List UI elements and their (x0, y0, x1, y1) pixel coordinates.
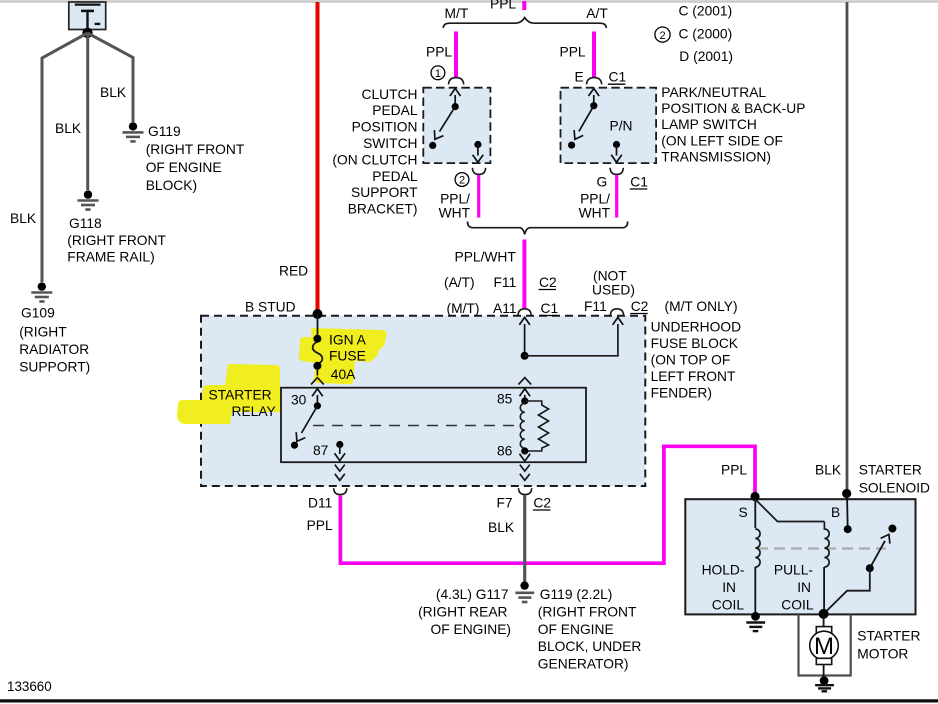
svg-text:G119: G119 (148, 124, 181, 139)
chevron pin 85 (518, 378, 531, 385)
svg-text:OF ENGINE: OF ENGINE (538, 622, 614, 637)
chevrons below 86 (520, 465, 530, 472)
svg-text:C2: C2 (533, 496, 551, 511)
svg-text:(NOT: (NOT (593, 269, 627, 284)
svg-text:A/T: A/T (586, 6, 608, 21)
svg-text:M/T: M/T (445, 6, 469, 21)
clutch switch arm (440, 107, 456, 132)
ground hold-in coil (746, 612, 765, 631)
ground G118 (78, 190, 99, 209)
svg-text:P/N: P/N (610, 119, 633, 134)
motor M circle (810, 631, 839, 660)
svg-text:RADIATOR: RADIATOR (19, 342, 89, 357)
wire fuse to relay (316, 366, 318, 376)
svg-text:PPL: PPL (307, 518, 333, 533)
svg-text:30: 30 (291, 393, 307, 408)
pin 87 arrow down (339, 445, 341, 455)
starter solenoid box (685, 499, 915, 614)
svg-text:(RIGHT FRONT: (RIGHT FRONT (67, 233, 166, 248)
relay pin 87 node (336, 441, 343, 448)
svg-text:C1: C1 (609, 70, 627, 85)
connector arc F11 not used (610, 309, 623, 316)
fuse terminal arrow up A11 (524, 324, 526, 356)
clutch pedal position switch box (423, 88, 490, 163)
motor brush top (816, 627, 831, 633)
starter motor housing (799, 614, 851, 675)
fuse IGN A (313, 335, 321, 343)
svg-text:(ON TOP OF: (ON TOP OF (651, 353, 731, 368)
svg-text:PPL/: PPL/ (580, 192, 610, 207)
pnp switch contact node (568, 142, 575, 149)
wire BLK to G118 (86, 33, 89, 190)
motor junction node (819, 609, 829, 619)
pnp output node (613, 141, 620, 148)
circled 1 (431, 66, 445, 80)
battery ground box (69, 2, 106, 30)
svg-text:(RIGHT FRONT: (RIGHT FRONT (146, 142, 245, 157)
hold-in coil (755, 529, 760, 567)
svg-text:BLK: BLK (10, 211, 37, 226)
svg-text:B: B (831, 505, 840, 520)
wire PPL/WHT right (615, 175, 618, 218)
top frame border (0, 0, 938, 3)
connector arc pnp bottom (610, 168, 623, 175)
svg-text:40A: 40A (331, 367, 356, 382)
clutch switch output node (474, 141, 481, 148)
pull-in coil (824, 522, 829, 568)
clutch switch contact node (429, 142, 436, 149)
wire B inside solenoid (846, 494, 849, 530)
wire PPL/WHT left (477, 175, 480, 218)
svg-text:(M/T ONLY): (M/T ONLY) (665, 299, 738, 314)
wire RED battery feed (316, 2, 320, 313)
svg-text:G118: G118 (69, 216, 102, 231)
svg-text:133660: 133660 (7, 679, 52, 694)
svg-text:(ON LEFT SIDE OF: (ON LEFT SIDE OF (661, 133, 783, 148)
svg-text:PPL: PPL (721, 463, 747, 478)
relay contact node 87 side (291, 442, 298, 449)
wire PPL stub top (522, 1, 526, 10)
svg-text:B STUD: B STUD (245, 300, 296, 315)
svg-text:STARTER: STARTER (859, 463, 922, 478)
node B STUD (313, 309, 323, 319)
svg-text:OF ENGINE: OF ENGINE (146, 160, 222, 175)
svg-text:STARTER: STARTER (857, 629, 920, 644)
svg-text:LAMP SWITCH: LAMP SWITCH (661, 117, 757, 132)
node BLK at solenoid B (842, 489, 851, 498)
svg-text:G109: G109 (21, 306, 55, 321)
svg-text:POSITION & BACK-UP: POSITION & BACK-UP (661, 101, 805, 116)
svg-text:C1: C1 (541, 301, 559, 316)
svg-text:(RIGHT: (RIGHT (19, 325, 67, 340)
svg-text:LEFT FRONT: LEFT FRONT (651, 369, 736, 384)
connector arc F7 (519, 488, 532, 494)
svg-text:C2: C2 (539, 275, 557, 290)
svg-text:GENERATOR): GENERATOR) (538, 657, 629, 672)
motor lead top (823, 614, 825, 627)
svg-text:MOTOR: MOTOR (857, 647, 908, 662)
svg-text:M: M (814, 633, 834, 660)
hold-in coil wire bottom (754, 567, 756, 614)
highlight IGN A FUSE (299, 328, 387, 384)
relay pivot node (314, 402, 321, 409)
wire BLK to G109 (42, 33, 88, 282)
relay interior dashed line (313, 425, 518, 427)
svg-text:COIL: COIL (781, 598, 814, 613)
pnp switch arm (579, 106, 594, 132)
svg-text:SWITCH: SWITCH (363, 136, 417, 151)
solenoid switch arm node (866, 564, 874, 572)
svg-text:BLK: BLK (815, 463, 842, 478)
svg-text:STARTER: STARTER (209, 388, 272, 403)
ground G119 (123, 122, 144, 141)
svg-text:85: 85 (497, 392, 513, 407)
svg-text:C1: C1 (630, 175, 648, 190)
connector arc clutch bottom (472, 168, 485, 175)
svg-text:PEDAL: PEDAL (372, 103, 418, 118)
pin 86 arrow down (524, 451, 526, 455)
wire BLK starter solenoid feed (846, 2, 849, 492)
svg-text:FRAME RAIL): FRAME RAIL) (67, 250, 154, 265)
svg-text:(A/T): (A/T) (444, 275, 475, 290)
svg-text:PPL: PPL (426, 44, 452, 59)
svg-text:(M/T): (M/T) (447, 301, 480, 316)
svg-text:OF ENGINE): OF ENGINE) (431, 622, 511, 637)
svg-text:F11: F11 (494, 275, 517, 290)
chevron pin 30 (311, 378, 324, 385)
label CLUTCH PEDAL POSITION SWITCH (332, 87, 418, 217)
svg-text:COIL: COIL (712, 598, 745, 613)
motor lead bottom (823, 665, 825, 679)
svg-text:S: S (739, 505, 748, 520)
svg-text:SUPPORT: SUPPORT (351, 185, 418, 200)
svg-text:C2: C2 (631, 299, 649, 314)
battery terminal symbol (75, 3, 101, 5)
solenoid switch fixed node (888, 525, 896, 533)
wire to F11 not used (525, 324, 618, 356)
svg-text:87: 87 (313, 443, 328, 458)
svg-text:(4.3L) G117: (4.3L) G117 (436, 587, 509, 602)
svg-text:FUSE BLOCK: FUSE BLOCK (651, 336, 739, 351)
ground G117/G119 (515, 581, 534, 602)
splice brace M/T A/T (443, 18, 606, 28)
ground G109 (31, 282, 52, 301)
relay coil node 85 (521, 397, 528, 404)
svg-text:D11: D11 (308, 496, 332, 511)
svg-text:POSITION: POSITION (352, 120, 418, 135)
svg-text:WHT: WHT (579, 206, 611, 221)
wire PPL/WHT combined (522, 240, 526, 309)
connector arc D11 (334, 488, 347, 494)
svg-text:TRANSMISSION): TRANSMISSION) (661, 150, 771, 165)
clutch switch output arrow down (477, 145, 479, 156)
junction node under battery box (82, 28, 92, 38)
svg-text:BLOCK, UNDER: BLOCK, UNDER (538, 639, 642, 654)
pnp switch pivot node (590, 102, 597, 109)
svg-text:G119 (2.2L): G119 (2.2L) (540, 587, 613, 602)
wire BLK to G119 (88, 33, 134, 122)
svg-text:RELAY: RELAY (232, 404, 276, 419)
svg-text:D (2001): D (2001) (679, 49, 733, 64)
svg-text:86: 86 (497, 444, 513, 459)
svg-text:(RIGHT REAR: (RIGHT REAR (418, 605, 507, 620)
svg-text:IGN A: IGN A (329, 333, 367, 348)
highlight STARTER RELAY (177, 364, 281, 424)
svg-text:PPL: PPL (490, 0, 516, 12)
underhood fuse block box (201, 316, 645, 486)
svg-text:USED): USED) (592, 283, 635, 298)
solenoid interior dashed line (757, 547, 886, 549)
svg-text:(ON CLUTCH: (ON CLUTCH (332, 152, 417, 167)
svg-text:PARK/NEUTRAL: PARK/NEUTRAL (661, 85, 766, 100)
svg-text:C (2001): C (2001) (679, 3, 733, 18)
svg-text:PPL: PPL (560, 44, 586, 59)
wire PPL M/T branch (454, 32, 458, 78)
node B contact (844, 525, 852, 533)
svg-text:PPL/WHT: PPL/WHT (455, 250, 517, 265)
svg-text:BLK: BLK (55, 121, 82, 136)
svg-text:F11: F11 (584, 299, 607, 314)
connector arc clutch top (449, 78, 464, 85)
park/neutral position switch box (561, 88, 657, 163)
svg-text:FENDER): FENDER) (651, 386, 712, 401)
relay pin 85 arrow up (524, 395, 526, 401)
solenoid switch wire to motor junction (824, 568, 870, 614)
svg-text:SOLENOID: SOLENOID (859, 481, 930, 496)
svg-text:BLOCK): BLOCK) (146, 178, 197, 193)
node PPL at solenoid S (750, 492, 759, 501)
connector arc pnp top (587, 78, 602, 85)
bottom frame border (0, 699, 938, 702)
wire PPL from D11 to solenoid S (340, 446, 755, 563)
svg-text:2: 2 (659, 30, 665, 42)
solenoid switch arm arrow (870, 541, 885, 568)
svg-text:F7: F7 (497, 496, 513, 511)
svg-text:BRACKET): BRACKET) (348, 202, 418, 217)
svg-text:HOLD-: HOLD- (702, 563, 745, 578)
pull-in coil wire bottom (823, 567, 825, 614)
svg-text:PEDAL: PEDAL (372, 169, 418, 184)
connector arc A11 (518, 309, 531, 316)
svg-text:C (2000): C (2000) (679, 27, 733, 42)
relay coil resistor zigzag (525, 401, 549, 451)
svg-text:RED: RED (279, 264, 308, 279)
svg-text:G: G (597, 175, 608, 190)
clutch switch terminal arrow up (454, 95, 456, 107)
hold-in coil wire top (754, 497, 756, 528)
svg-text:PULL-: PULL- (774, 563, 813, 578)
relay pin 30 arrow up (316, 395, 318, 406)
junction node fuse block (521, 352, 529, 360)
chevrons below 87 (335, 465, 345, 472)
relay arm (302, 406, 318, 433)
svg-text:SUPPORT): SUPPORT) (19, 360, 90, 375)
svg-text:WHT: WHT (439, 206, 471, 221)
svg-text:1: 1 (435, 68, 441, 80)
legend circled 2 (655, 27, 670, 42)
starter relay box (281, 388, 586, 463)
pnp output arrow down (616, 145, 618, 156)
ground starter motor (815, 676, 834, 691)
wire B stud to fuse (317, 314, 319, 339)
relay coil (520, 403, 525, 448)
svg-text:FUSE: FUSE (329, 349, 366, 364)
pnp switch terminal arrow up (593, 95, 595, 106)
wire PPL A/T branch (592, 32, 596, 78)
svg-text:A11: A11 (493, 301, 517, 316)
svg-text:BLK: BLK (488, 520, 515, 535)
svg-text:IN: IN (797, 580, 811, 595)
svg-text:(RIGHT FRONT: (RIGHT FRONT (538, 605, 637, 620)
svg-text:BLK: BLK (100, 85, 127, 100)
clutch switch pivot node (452, 103, 459, 110)
wire S to pull-in coil (755, 499, 824, 522)
svg-text:PPL/: PPL/ (440, 192, 470, 207)
svg-text:IN: IN (722, 580, 736, 595)
circled 2 (455, 173, 469, 187)
merge brace to PPL/WHT (468, 222, 628, 235)
wire BLK from F7 to G117 (523, 495, 526, 582)
svg-text:E: E (575, 70, 584, 85)
motor brush bottom (816, 658, 831, 664)
svg-text:CLUTCH: CLUTCH (362, 87, 418, 102)
svg-text:UNDERHOOD: UNDERHOOD (651, 320, 741, 335)
relay coil node 86 (521, 447, 528, 454)
svg-text:2: 2 (459, 175, 465, 187)
